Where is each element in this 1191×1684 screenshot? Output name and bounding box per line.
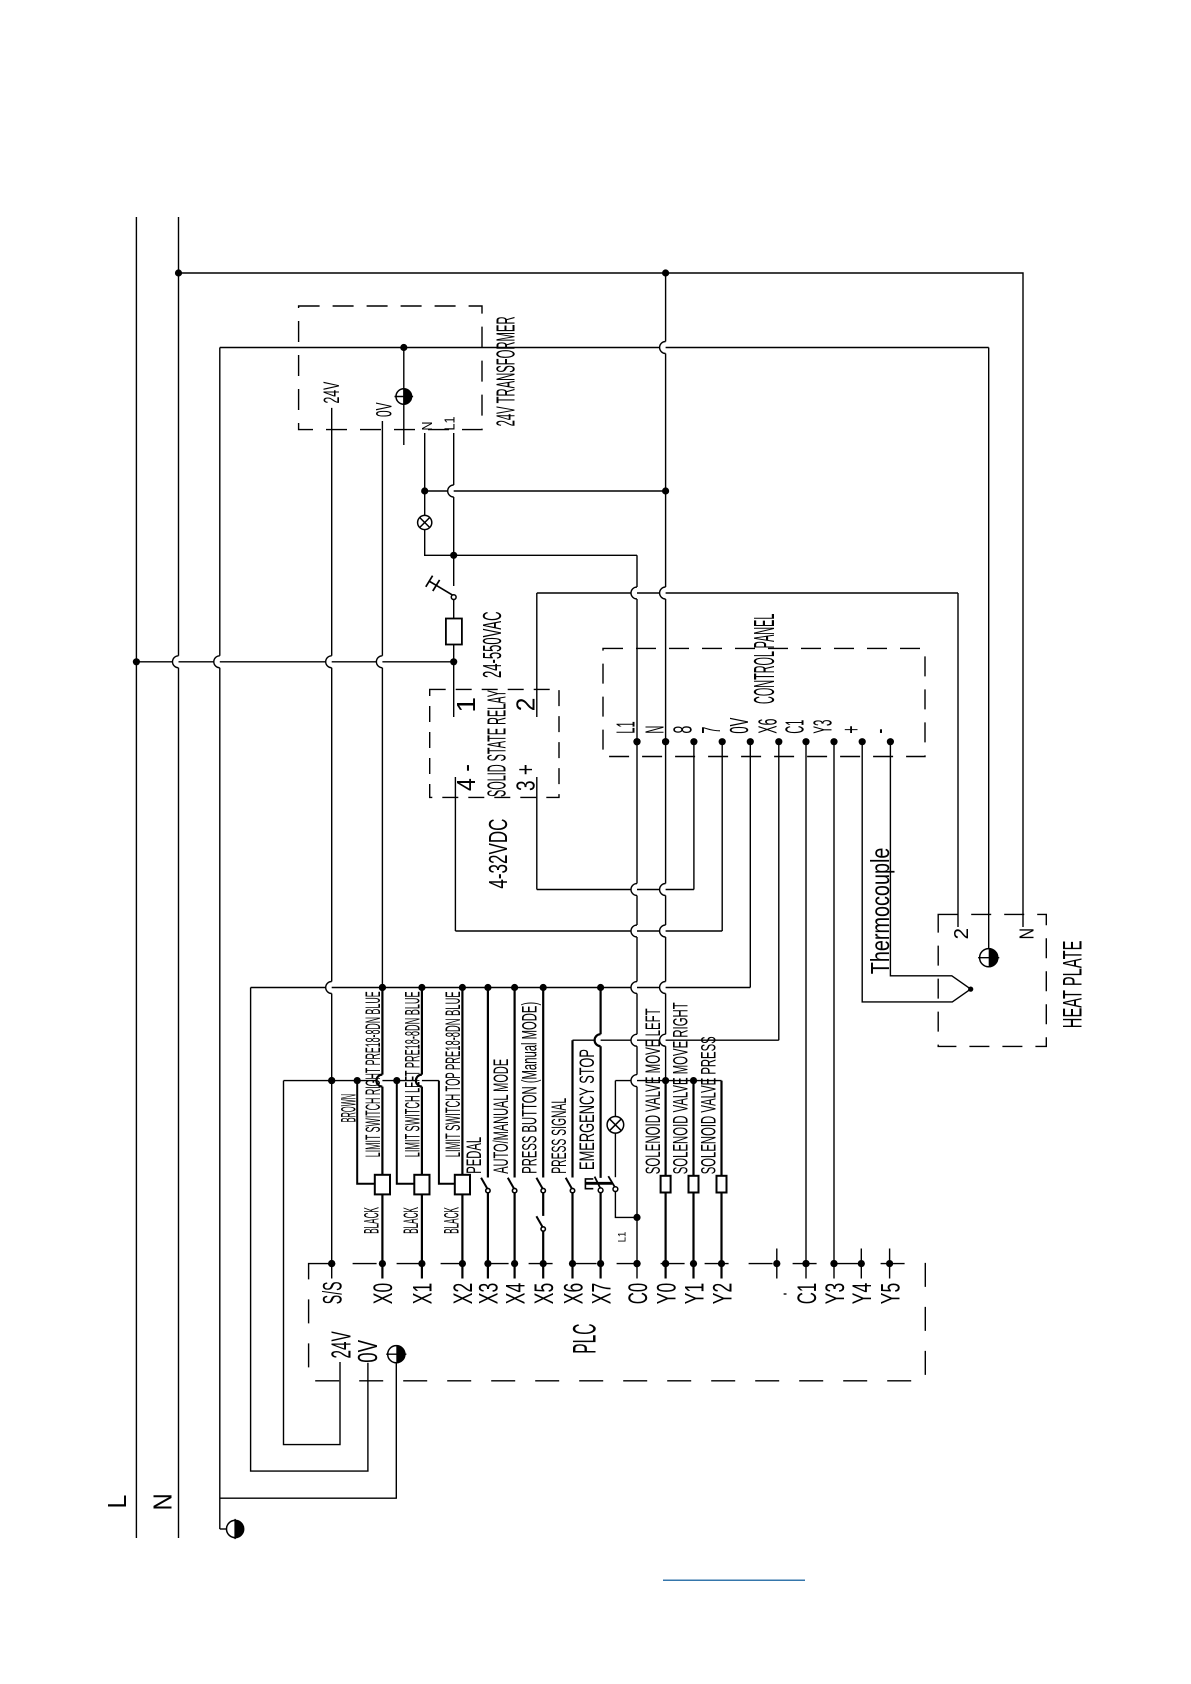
node PE transformer tap — [400, 344, 407, 351]
node L1 estop lamp tap — [633, 1214, 640, 1221]
node 0V row tap x487.9 — [484, 984, 491, 991]
svg-text:N: N — [1017, 928, 1039, 939]
limit switch TOP PRE18-8DN body — [455, 1175, 470, 1195]
svg-text:0V: 0V — [352, 1340, 383, 1363]
wire sensor LEFT blue lead — [416, 988, 422, 1175]
node brown tap RIGHT — [354, 1077, 361, 1084]
wire sensor RIGHT blue lead — [376, 988, 382, 1175]
wire relay pin2 row to heat plate 2 — [537, 592, 958, 594]
svg-text:SOLENOID VALVE PRESS: SOLENOID VALVE PRESS — [698, 1036, 721, 1174]
node PLC terminal Y1 — [690, 1260, 697, 1267]
svg-text:PRESS BUTTON (Manual MODE): PRESS BUTTON (Manual MODE) — [518, 1002, 541, 1174]
svg-text:0V: 0V — [726, 718, 754, 734]
wire PE to PLC earth horizontal — [220, 1497, 397, 1499]
svg-text:-: - — [866, 729, 894, 734]
node PLC C1 terminal — [802, 1260, 809, 1267]
wire transformer 0V down — [376, 421, 382, 988]
heat plate dashed box — [938, 914, 1046, 1046]
wire thermocouple minus lead — [890, 742, 970, 989]
solenoid valve MOVE LEFT coil — [661, 1176, 671, 1193]
node PLC terminal X3 — [484, 1260, 491, 1267]
node 0V row tap x382.4 — [379, 984, 386, 991]
node brown row S/S — [328, 1077, 335, 1084]
wire transformer N stub — [424, 433, 426, 491]
wire sensor 0V common row — [251, 987, 751, 989]
wire top rail N to heat plate — [179, 273, 1024, 927]
wire sensor LEFT black lead to PLC — [421, 1194, 423, 1278]
solenoid valve PRESS coil — [717, 1176, 727, 1193]
node PLC S/S terminal — [328, 1260, 335, 1267]
wire solenoid 2 upper lead — [692, 1081, 694, 1176]
node 0V row tap x421.9 — [418, 984, 425, 991]
node cp terminal + — [859, 738, 866, 745]
node PLC terminal Y5 — [886, 1260, 893, 1267]
node PLC terminal X7 — [597, 1260, 604, 1267]
svg-text:1: 1 — [451, 697, 481, 713]
wire sensor RIGHT black lead to PLC — [381, 1194, 383, 1278]
node S/S supply tap — [328, 1077, 335, 1084]
node PLC terminal X6 — [569, 1260, 576, 1267]
wire thermocouple plus lead — [862, 742, 971, 1002]
node 0V row tap x543.2 — [540, 984, 547, 991]
node PLC Y3 terminal — [830, 1260, 837, 1267]
svg-text:8: 8 — [670, 726, 698, 734]
svg-text:X7: X7 — [586, 1283, 616, 1304]
wire PLC spare terminal dot stub — [776, 1249, 778, 1279]
PLC dashed box — [309, 1264, 926, 1381]
node N column tap — [662, 269, 669, 276]
node cp terminal N — [662, 738, 669, 745]
wire switch to fuse — [453, 600, 455, 619]
node cp terminal 8 — [690, 738, 697, 745]
node cp terminal Y3 — [830, 738, 837, 745]
svg-text:X0: X0 — [368, 1283, 398, 1304]
node cp terminal X6 — [775, 738, 782, 745]
svg-text:Y2: Y2 — [707, 1283, 737, 1304]
svg-text:PEDAL: PEDAL — [463, 1137, 486, 1174]
svg-text:24V TRANSFORMER: 24V TRANSFORMER — [491, 316, 521, 426]
wire L rail — [135, 217, 137, 1538]
ground heat plate earth symbol — [980, 949, 998, 967]
wire N column top rail to solenoid 1 — [660, 273, 666, 1081]
node PLC terminal X1 — [418, 1260, 425, 1267]
svg-text:L1: L1 — [613, 721, 641, 733]
limit switch LEFT PRE18-8DN body — [414, 1175, 429, 1195]
wire sensor RIGHT brown lead — [357, 1081, 375, 1184]
svg-text:2: 2 — [951, 928, 973, 939]
svg-text:Y4: Y4 — [847, 1283, 877, 1304]
wire sensor LEFT brown lead — [397, 1081, 415, 1184]
wire bottom earth stub — [220, 1528, 227, 1530]
svg-text:Y3: Y3 — [810, 720, 838, 734]
svg-text:2: 2 — [511, 698, 541, 712]
node PLC terminal X5 — [540, 1260, 547, 1267]
svg-text:X6: X6 — [558, 1283, 588, 1304]
limit switch RIGHT PRE18-8DN body — [375, 1175, 390, 1195]
wire PE drop to heat plate — [988, 348, 990, 949]
emergency stop head bracket — [585, 1179, 593, 1189]
node PLC terminal Y4 — [858, 1260, 865, 1267]
ground transformer earth symbol — [396, 389, 412, 405]
svg-text:BROWN: BROWN — [338, 1094, 361, 1123]
wire 0V wrap to PLC — [251, 988, 368, 1472]
node cp N terminal — [662, 738, 669, 745]
svg-text:PLC: PLC — [566, 1324, 602, 1354]
switch AUTO/MANUAL MODE on X4 — [513, 988, 515, 1178]
svg-text:EMERGENCY STOP: EMERGENCY STOP — [576, 1049, 599, 1170]
svg-text:Y0: Y0 — [651, 1283, 681, 1304]
svg-text:C1: C1 — [782, 720, 810, 734]
svg-text:24-550VAC: 24-550VAC — [477, 612, 507, 679]
node brown tap LEFT — [393, 1077, 400, 1084]
svg-text:SOLENOID VALVE MOVE RIGHT: SOLENOID VALVE MOVE RIGHT — [670, 1002, 693, 1174]
wire sensor brown supply row — [284, 1080, 439, 1082]
wire N rail — [173, 217, 179, 1538]
svg-text:+: + — [838, 726, 866, 734]
wire transformer 24V to PLC S/S column — [326, 408, 332, 1279]
wire N row to control panel column — [425, 490, 666, 492]
node L rail junction — [133, 658, 140, 665]
svg-text:BLACK: BLACK — [360, 1207, 383, 1234]
wire relay pin3 to cp terminal 8 — [536, 777, 538, 890]
node N stub junction — [421, 487, 428, 494]
switch PRESS SIGNAL on X6 — [571, 1040, 573, 1177]
node PLC terminal Y2 — [718, 1260, 725, 1267]
node N-top junction — [175, 269, 182, 276]
wire estop to PLC X7 — [599, 1193, 601, 1279]
svg-text:PRESS SIGNAL: PRESS SIGNAL — [548, 1098, 571, 1174]
relay U1 SOLID STATE RELAY dashed box — [430, 689, 559, 797]
svg-text:C1: C1 — [792, 1283, 822, 1304]
wire blue underline artifact — [663, 1579, 805, 1581]
node PLC Y0 terminal — [662, 1260, 669, 1267]
svg-text:L1: L1 — [442, 417, 459, 431]
wire solenoid 3 upper lead — [720, 1081, 722, 1176]
wire cp Y3 to PLC Y3 — [833, 742, 835, 1279]
switch PRESS BUTTON on X5 (two contacts) — [542, 988, 544, 1178]
node fuse row junction — [450, 658, 457, 665]
svg-text:X3: X3 — [474, 1283, 504, 1304]
node cp terminal C1 — [802, 738, 809, 745]
wire cp C1 to PLC C1 — [805, 742, 807, 1279]
svg-text:4-32VDC: 4-32VDC — [483, 819, 513, 889]
emergency stop actuator bar — [585, 1182, 612, 1185]
wire fuse to relay pin1 — [453, 645, 455, 718]
svg-text:LIMIT SWITCH TOP PRE18-8DN BLU: LIMIT SWITCH TOP PRE18-8DN BLUE — [442, 991, 465, 1157]
wire sensor TOP brown lead — [439, 1081, 455, 1184]
svg-text:S/S: S/S — [318, 1281, 348, 1304]
svg-text:.: . — [763, 1292, 793, 1296]
node thermocouple tip — [968, 987, 973, 992]
wire transformer earth stub — [403, 348, 405, 446]
svg-text:L: L — [102, 1495, 132, 1509]
node lamp tap on L1 — [450, 552, 457, 559]
wire heat plate 2 drop — [957, 593, 959, 927]
wire relay pin4 to cp terminal 7 — [454, 777, 456, 931]
svg-text:CONTROL PANEL: CONTROL PANEL — [749, 614, 781, 704]
wire 24V wrap to PLC — [284, 1081, 341, 1445]
node PLC terminal Y3 — [830, 1260, 837, 1267]
wire sensor TOP blue lead — [461, 988, 463, 1175]
svg-text:X5: X5 — [529, 1283, 559, 1304]
svg-text:BLACK: BLACK — [440, 1207, 463, 1234]
switch S1 main power switch — [436, 585, 453, 595]
svg-text:N: N — [148, 1493, 178, 1510]
wire solenoid valve 1 upper lead — [664, 1081, 666, 1176]
wire L1 column to PLC C0 — [631, 555, 637, 1278]
node PLC terminal Y0 — [662, 1260, 669, 1267]
switch PEDAL on X3 — [487, 988, 489, 1178]
solenoid valve MOVE RIGHT coil — [689, 1176, 699, 1193]
node cp L1 terminal — [633, 738, 640, 745]
node PLC terminal . — [773, 1260, 780, 1267]
wire relay pin2 column — [536, 593, 538, 717]
svg-text:X6: X6 — [755, 719, 783, 734]
node solenoid1 N tap — [662, 1077, 669, 1084]
emergency stop main contact — [595, 1177, 601, 1189]
node 0V row tap x600.6 — [597, 984, 604, 991]
svg-text:Y3: Y3 — [820, 1283, 850, 1304]
wire PLC Y4 stub — [860, 1249, 862, 1279]
wire sensor TOP black lead to PLC — [461, 1194, 463, 1278]
svg-text:HEAT PLATE: HEAT PLATE — [1058, 941, 1088, 1029]
node cp terminal 0V — [747, 738, 754, 745]
svg-text:7: 7 — [698, 727, 726, 734]
wire PE horizontal rail — [220, 347, 989, 349]
wire solenoid 2 to PLC Y1 — [692, 1193, 694, 1279]
node PLC terminal S/S — [328, 1260, 335, 1267]
wire cp X6 to press signal row — [778, 742, 780, 1040]
wire lamp to L1 row — [425, 530, 637, 556]
svg-text:AUTO/MANUAL MODE: AUTO/MANUAL MODE — [490, 1059, 513, 1174]
transformer T1 24V TRANSFORMER dashed box — [299, 306, 482, 430]
node PLC terminal C1 — [802, 1260, 809, 1267]
node PLC terminal X4 — [511, 1260, 518, 1267]
svg-text:24V: 24V — [319, 382, 344, 404]
wire N stub to lamp — [424, 491, 426, 515]
lamp HL1 power indicator — [418, 515, 432, 529]
wire PLC Y5 stub — [889, 1249, 891, 1279]
svg-text:N: N — [419, 422, 436, 431]
wire lamp to estop aux — [614, 1133, 616, 1177]
svg-text:X1: X1 — [408, 1283, 438, 1304]
node PLC terminal X2 — [459, 1260, 466, 1267]
svg-text:SOLENOID VALVE MOVE LEFT: SOLENOID VALVE MOVE LEFT — [642, 1008, 665, 1174]
node PLC terminal C0 — [633, 1260, 640, 1267]
emergency stop aux contact — [608, 1176, 615, 1187]
ground PLC earth symbol — [388, 1346, 405, 1363]
wire transformer L1 down to switch — [448, 433, 454, 586]
svg-text:C0: C0 — [623, 1283, 653, 1304]
wire solenoid N common row — [615, 1080, 721, 1082]
svg-text:0V: 0V — [372, 402, 397, 417]
wire PE rail vertical — [214, 348, 220, 1530]
node cp terminal - — [887, 738, 894, 745]
wire lamp drop from N row — [614, 1081, 616, 1117]
control panel dashed box — [603, 648, 925, 756]
node PLC terminal X0 — [379, 1260, 386, 1267]
wire estop aux to L1 — [615, 1192, 637, 1218]
fuse F1 — [446, 619, 462, 645]
node 0V common junction — [379, 984, 386, 991]
node cp terminal 7 — [719, 738, 726, 745]
svg-text:SOLID STATE RELAY: SOLID STATE RELAY — [482, 690, 512, 797]
svg-text:BLACK: BLACK — [400, 1207, 423, 1234]
node cp terminal L1 — [633, 738, 640, 745]
wire X7 from 0V row to estop — [595, 988, 601, 1178]
svg-text:L1: L1 — [617, 1232, 629, 1243]
node 0V row tap x462.4 — [459, 984, 466, 991]
node solenoid2 tap — [690, 1077, 697, 1084]
wire PLC earth stub down — [395, 1363, 397, 1498]
node N row junction — [662, 487, 669, 494]
wire solenoid 1 to PLC Y0 — [664, 1193, 666, 1279]
node PLC C0 terminal — [633, 1260, 640, 1267]
svg-text:LIMIT SWITCH LEFT PRE18-8DN BL: LIMIT SWITCH LEFT PRE18-8DN BLUE — [402, 991, 425, 1157]
lamp HL2 emergency stop indicator — [607, 1117, 624, 1134]
node 0V row tap x514.6 — [511, 984, 518, 991]
svg-text:Y5: Y5 — [875, 1283, 905, 1304]
svg-text:X4: X4 — [500, 1283, 530, 1304]
ground bottom-left earth symbol — [227, 1520, 244, 1537]
wire solenoid 3 to PLC Y2 — [720, 1193, 722, 1279]
svg-text:N: N — [641, 726, 669, 734]
wire row L to fuse — [136, 661, 453, 663]
svg-text:Y1: Y1 — [679, 1283, 709, 1304]
svg-text:LIMIT SWITCH RIGHT PRE18-8DN B: LIMIT SWITCH RIGHT PRE18-8DN BLUE — [362, 991, 385, 1157]
wire X6 row — [573, 1039, 779, 1041]
wire cp 0V to sensor common row — [749, 742, 751, 988]
